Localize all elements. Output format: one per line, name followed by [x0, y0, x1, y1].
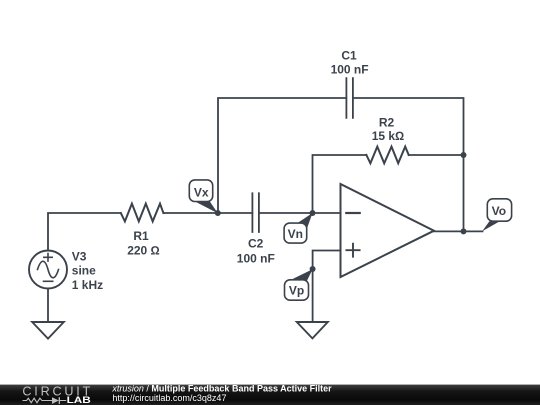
wire C1 right to output node — [353, 98, 464, 231]
label R1 value — [127, 229, 160, 258]
label V3 value — [72, 249, 103, 292]
footer CircuitLab logo — [22, 384, 91, 405]
svg-text:Vp: Vp — [289, 284, 304, 298]
svg-text:15 kΩ: 15 kΩ — [372, 129, 405, 143]
wire R1 to C2 — [163, 212, 252, 214]
ground under V3 — [32, 322, 64, 339]
wire C2 to op-amp minus input — [259, 212, 341, 214]
svg-text:R1: R1 — [133, 229, 149, 243]
svg-text:sine: sine — [72, 264, 96, 278]
label R2 value — [372, 115, 405, 143]
label C2 value — [237, 237, 275, 266]
flag pointer Vo — [482, 221, 500, 231]
label box Vo — [487, 199, 511, 221]
capacitor C1 — [346, 78, 353, 118]
flag pointer Vp — [290, 269, 313, 281]
label box Vx — [189, 180, 212, 202]
voltage source V3 — [29, 251, 67, 289]
footer bar — [0, 385, 540, 405]
junction dot node Vn — [310, 210, 316, 216]
flag pointer Vx — [196, 201, 218, 213]
op-amp U1 — [341, 184, 435, 277]
svg-text:xtrusion / Multiple Feedback B: xtrusion / Multiple Feedback Band Pass A… — [111, 384, 332, 394]
svg-text:R2: R2 — [379, 115, 395, 129]
svg-text:Vx: Vx — [194, 185, 209, 199]
wire op-amp output — [434, 230, 483, 232]
svg-text:Vo: Vo — [492, 204, 506, 218]
wire plus input to ground — [313, 251, 341, 323]
junction dot R2-output — [461, 152, 467, 158]
svg-text:220 Ω: 220 Ω — [127, 244, 160, 258]
junction dot output — [461, 228, 467, 234]
svg-text:http://circuitlab.com/c3q8z47: http://circuitlab.com/c3q8z47 — [112, 393, 226, 403]
label box Vp — [285, 280, 309, 300]
resistor R2 — [366, 147, 408, 164]
svg-text:LAB: LAB — [67, 395, 91, 405]
svg-text:100 nF: 100 nF — [237, 252, 275, 266]
resistor R1 — [121, 204, 164, 222]
capacitor C2 — [252, 193, 259, 232]
op-amp minus sign — [346, 212, 359, 214]
ground under Vp — [297, 322, 328, 338]
op-amp plus sign — [346, 244, 359, 257]
wire V3 top to R1 — [48, 213, 121, 251]
junction dot node Vp — [310, 266, 316, 272]
svg-text:Vn: Vn — [288, 227, 303, 241]
svg-text:C1: C1 — [341, 48, 357, 62]
svg-text:V3: V3 — [72, 249, 87, 263]
junction dot node Vx — [215, 210, 221, 216]
wire R2 right to output vertical — [409, 154, 464, 156]
svg-text:100 nF: 100 nF — [331, 62, 369, 76]
svg-text:1 kHz: 1 kHz — [72, 278, 103, 292]
label box Vn — [284, 223, 307, 243]
flag pointer Vn — [297, 213, 313, 230]
svg-text:C2: C2 — [248, 237, 264, 251]
wire node Vn up to R2 — [313, 155, 367, 213]
wire V3 bottom to ground — [47, 289, 49, 323]
wire node Vx up and across to C1 — [218, 98, 346, 213]
label C1 value — [331, 48, 369, 76]
